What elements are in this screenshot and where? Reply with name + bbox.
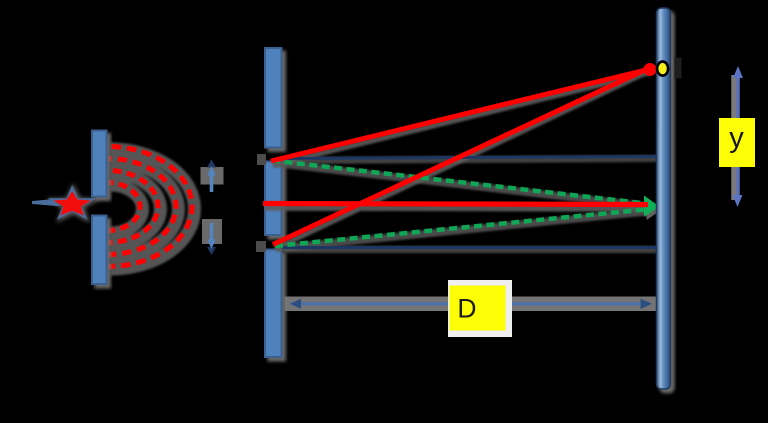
red rays: [263, 68, 650, 245]
green arrow head: [644, 196, 662, 221]
navy reference lines (slit axes): [282, 157, 657, 248]
svg-text:y: y: [729, 122, 744, 154]
left barrier (single slit): [92, 131, 107, 285]
wavefront arcs halo shadow: [111, 149, 195, 269]
green rays halo: [274, 163, 651, 249]
source star: [32, 185, 97, 220]
middle barrier (double slit): [265, 48, 282, 357]
y dimension arrow: [733, 66, 744, 207]
wavefront arcs (dashed red): [108, 147, 192, 267]
bright fringe dot: [675, 58, 682, 79]
svg-text:D: D: [457, 294, 476, 324]
y label box: [719, 118, 755, 167]
D dimension line: [285, 299, 657, 309]
star shadow halo: [46, 183, 101, 223]
red rays halo: [265, 71, 650, 249]
small spread arrows with halo: [201, 160, 224, 256]
screen: [657, 8, 671, 389]
D label box: [448, 280, 512, 337]
long navy reference lines with halo: [284, 159, 657, 250]
green dashed rays: [272, 161, 650, 247]
slit nubs: [257, 154, 266, 165]
